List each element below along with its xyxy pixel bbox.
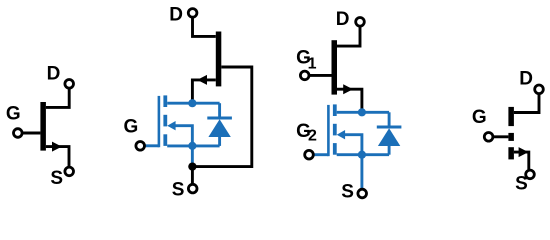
wire source lead [46, 147, 69, 167]
wire diode branch upper [218, 103, 221, 117]
svg-text:D: D [336, 9, 350, 30]
wire diode branch lower [218, 137, 221, 146]
terminal D [356, 18, 365, 27]
wire gate loop to source node [192, 67, 251, 167]
junction dot blue drain node [188, 99, 196, 107]
channel segment top [163, 95, 167, 107]
svg-text:D: D [519, 69, 533, 90]
terminal G [136, 142, 145, 151]
wire source lead down to blue drain rail [337, 89, 362, 112]
source arrow (points right) [519, 147, 529, 157]
channel segment top [508, 107, 514, 126]
wire body tie [172, 126, 192, 146]
terminal S [526, 170, 535, 179]
wire source down to S [360, 155, 363, 189]
channel bar [40, 102, 46, 151]
svg-text:1: 1 [308, 56, 317, 73]
svg-text:G: G [6, 103, 21, 124]
channel segment middle [163, 115, 167, 127]
source arrow (points right) [343, 84, 353, 94]
wire diode branch upper [388, 112, 391, 126]
wire drain lead [193, 18, 216, 36]
svg-text:S: S [515, 173, 528, 194]
body diode triangle [378, 128, 400, 146]
svg-text:G: G [124, 116, 139, 137]
channel segment middle [508, 133, 514, 141]
body diode cathode bar [377, 126, 402, 129]
terminal G [484, 133, 493, 142]
body arrow blue (points left into channel) [337, 130, 345, 139]
junction dot blue source node [188, 142, 196, 150]
wire source of JFET down to blue drain rail [192, 80, 215, 103]
wire diode branch lower [388, 146, 391, 155]
channel segment bottom [163, 134, 167, 146]
terminal G1 [300, 71, 309, 80]
wire gate lead blue G2 [314, 153, 328, 156]
terminal D [535, 85, 544, 94]
wire drain lead [337, 27, 360, 46]
wire gate lead blue [145, 144, 159, 147]
channel segment middle [333, 124, 337, 136]
wire drain rail [167, 102, 219, 105]
wire source lead [514, 152, 529, 169]
body diode cathode bar [207, 117, 232, 120]
terminal S [358, 189, 367, 198]
source arrow upper JFET (points left) [197, 75, 207, 85]
svg-text:D: D [169, 4, 183, 25]
channel bar upper JFET [216, 32, 222, 87]
source arrow (points right) [52, 142, 62, 152]
terminal D [188, 9, 197, 18]
terminal G [13, 129, 22, 138]
blue MOSFET [314, 104, 389, 188]
blue MOSFET [145, 95, 219, 166]
terminal S [65, 167, 74, 176]
svg-text:G: G [472, 107, 487, 128]
svg-text:S: S [172, 180, 185, 201]
wire source rail [167, 144, 219, 147]
channel bar upper JFET [332, 40, 338, 94]
channel segment top [333, 104, 337, 116]
junction dot blue source node [358, 151, 366, 159]
wire drain lead [514, 94, 539, 112]
svg-text:2: 2 [308, 127, 317, 144]
gate plate [158, 96, 161, 147]
wire source node down [191, 146, 194, 167]
channel segment bottom [508, 147, 514, 159]
svg-text:S: S [341, 182, 354, 203]
terminal G2 [305, 150, 314, 159]
wire drain lead [46, 89, 69, 108]
wire drain rail [337, 111, 389, 114]
wire gate lead [494, 135, 509, 138]
wire S lead [191, 167, 194, 184]
terminal D [65, 80, 74, 89]
svg-text:D: D [47, 64, 61, 85]
wire gate lead G1 [310, 74, 332, 77]
svg-text:S: S [50, 168, 63, 189]
body arrow blue (points left into channel) [167, 121, 175, 130]
wire body tie [342, 135, 362, 155]
gate plate [327, 105, 330, 156]
junction dot black S node [188, 162, 196, 170]
body diode triangle [208, 119, 230, 137]
terminal S [188, 184, 197, 193]
junction dot blue drain node [358, 108, 366, 116]
channel segment bottom [333, 143, 337, 155]
wire source rail [337, 153, 389, 156]
wire gate lead [23, 132, 41, 135]
